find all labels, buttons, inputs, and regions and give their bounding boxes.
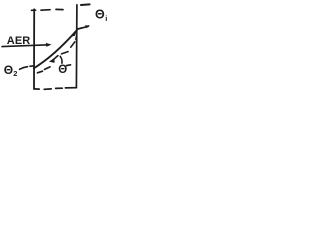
wire left vertical axis (33, 9, 35, 89)
theta-2 leader dashes (20, 66, 34, 69)
svg-text:Θ: Θ (58, 64, 67, 76)
main solid ray curve (34, 30, 77, 68)
dashed chord segments (62, 37, 77, 54)
dashed horizontal reference line (38, 65, 71, 73)
svg-text:i: i (105, 14, 107, 23)
angle arc (60, 56, 62, 63)
wire top-right dash toward theta-i (81, 3, 90, 6)
angle arrow pointing at vertex (49, 58, 55, 63)
arrowhead on main ray (72, 31, 77, 37)
svg-text:Θ: Θ (4, 63, 13, 77)
AER underline arrow (2, 45, 49, 47)
wire right vertical line (75, 5, 78, 88)
arrow to theta-i label (77, 26, 88, 29)
svg-text:Θ: Θ (95, 8, 105, 22)
wire bottom dashed edge (34, 88, 76, 90)
svg-text:2: 2 (13, 69, 17, 78)
wire top dashed edge (32, 8, 64, 11)
